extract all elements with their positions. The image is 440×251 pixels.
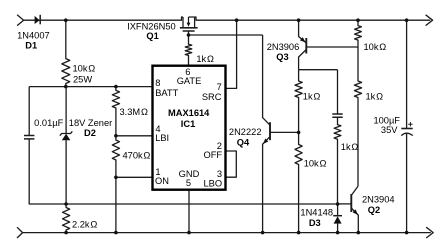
output arrow top-right (426, 15, 433, 26)
transistor Q4 emitter (263, 137, 270, 233)
svg-text:5: 5 (186, 178, 191, 188)
zener D2 top lead (65, 87, 67, 134)
wire ON pin 1 (116, 176, 153, 178)
resistor 1k below capacitor (334, 118, 341, 205)
svg-text:OFF: OFF (204, 150, 223, 160)
input terminal bottom-left (17, 227, 23, 238)
zener D2 triangle (62, 134, 71, 141)
svg-text:2N3906: 2N3906 (267, 42, 300, 52)
diode D3 top lead (337, 204, 339, 215)
transistor Q4 emitter arrow (263, 139, 268, 145)
capacitor 100uF positive plate (401, 128, 412, 130)
svg-text:2N2222: 2N2222 (229, 127, 262, 137)
diode D3 bottom lead (337, 224, 339, 233)
resistor 470k (112, 136, 119, 178)
wire Q3 collector to capacitor branch (299, 69, 338, 71)
svg-text:SRC: SRC (202, 92, 222, 102)
svg-text:BATT: BATT (155, 88, 178, 98)
svg-text:10k Ω: 10k Ω (364, 42, 387, 52)
transistor Q4 base wire (270, 131, 299, 133)
svg-text:1k Ω: 1k Ω (366, 91, 384, 101)
svg-text:Q2: Q2 (368, 205, 380, 215)
wire bottom rail (23, 232, 431, 234)
svg-text:GATE: GATE (177, 76, 202, 86)
resistor 1k gate (185, 35, 192, 66)
svg-text:Q4: Q4 (237, 137, 250, 147)
transistor Q1 channel bar (180, 27, 198, 29)
transistor Q2 bar (350, 194, 352, 212)
svg-text:1N4007: 1N4007 (17, 30, 50, 40)
svg-text:Q1: Q1 (146, 31, 158, 41)
transistor Q1 gate lead (188, 31, 190, 35)
transistor Q1 gate bar (183, 30, 195, 32)
wire ON column to bottom rail (115, 177, 117, 232)
svg-text:35V: 35V (381, 125, 398, 135)
wire LBI pin 4 (116, 135, 153, 137)
capacitor 100uF plus sign (408, 122, 412, 126)
capacitor middle plates (332, 114, 342, 117)
transistor Q2 collector (351, 186, 358, 195)
zener D2 cathode bar (60, 131, 72, 135)
resistor 3.3M (112, 87, 119, 136)
capacitor 0.01uF bottom lead and zener ground line (29, 139, 337, 204)
svg-text:1k Ω: 1k Ω (341, 142, 359, 152)
input terminal top-left (17, 15, 24, 26)
transistor Q3 emitter arrow (300, 37, 306, 42)
transistor Q3 collector (299, 50, 307, 70)
svg-text:10k Ω: 10k Ω (304, 158, 327, 168)
svg-text:0.01µF: 0.01µF (34, 118, 63, 128)
svg-text:IXFN26N50: IXFN26N50 (127, 21, 176, 31)
diode D1 cathode bar (39, 15, 41, 24)
svg-text:3.3M Ω: 3.3M Ω (120, 107, 148, 117)
svg-text:LBO: LBO (203, 178, 222, 188)
svg-text:D2: D2 (84, 128, 96, 138)
capacitor 0.01uF plates (24, 136, 34, 139)
svg-text:2N3904: 2N3904 (362, 194, 395, 204)
transistor Q2 emitter (351, 208, 358, 233)
resistor 2.2k (63, 204, 70, 233)
svg-text:ON: ON (155, 176, 169, 186)
wire top rail from input to Q1 drain (24, 17, 183, 20)
transistor Q3 bar (305, 38, 307, 54)
transistor Q3 base wire (306, 46, 358, 48)
capacitor 100uF bottom lead (406, 134, 408, 233)
svg-text:3: 3 (217, 169, 222, 179)
svg-text:1N4148: 1N4148 (300, 208, 333, 218)
wire gate node to Q4 collector (189, 34, 263, 36)
wire GND pin 5 to bottom rail (188, 190, 190, 233)
diode D3 cathode bar (333, 215, 342, 217)
zener D2 bottom lead (65, 140, 67, 204)
transistor Q1 body arrow (187, 17, 191, 27)
resistor 1k right column (354, 47, 361, 186)
capacitor 100uF curved plate (401, 133, 412, 135)
svg-text:D1: D1 (25, 41, 37, 51)
capacitor middle top lead (337, 70, 339, 114)
wire top rail from Q1 source to output (195, 17, 431, 20)
svg-text:1k Ω: 1k Ω (196, 54, 214, 64)
resistor 10k 25W (62, 20, 70, 86)
capacitor 100uF top lead (406, 20, 408, 128)
svg-text:18V Zener: 18V Zener (69, 118, 112, 128)
diode D3 triangle (334, 216, 342, 223)
transistor Q2 emitter arrow (353, 209, 358, 215)
output arrow bottom-right (426, 227, 433, 238)
svg-text:2.2k Ω: 2.2k Ω (72, 219, 97, 229)
svg-text:1k Ω: 1k Ω (303, 91, 321, 101)
IC1 MAX1614 box (153, 66, 226, 190)
transistor Q4 collector (263, 35, 270, 125)
resistor 10k Q4 base (295, 132, 302, 232)
svg-text:LBI: LBI (155, 133, 169, 143)
svg-text:8: 8 (155, 78, 160, 88)
svg-text:100µF: 100µF (373, 115, 400, 125)
svg-text:MAX1614: MAX1614 (168, 108, 210, 118)
svg-text:25W: 25W (73, 74, 92, 84)
svg-text:10k Ω: 10k Ω (73, 63, 96, 73)
transistor Q2 base wire (338, 203, 352, 205)
diode D1 triangle (35, 16, 40, 24)
svg-text:7: 7 (217, 82, 222, 92)
resistor 10k top right (355, 20, 362, 47)
svg-text:470k Ω: 470k Ω (123, 150, 151, 160)
svg-text:D3: D3 (309, 218, 321, 228)
wire OFF pin 2 to LBO pin 3 (226, 151, 237, 177)
resistor 1k Q3 collector (295, 70, 302, 133)
transistor Q4 bar (269, 122, 271, 140)
transistor Q3 emitter (299, 20, 307, 43)
wire SRC pin 7 riser (226, 20, 237, 88)
svg-text:Q3: Q3 (276, 52, 288, 62)
svg-text:IC1: IC1 (181, 119, 195, 129)
capacitor 0.01uF top lead (28, 87, 30, 136)
transistor Q1 contact stubs (183, 17, 195, 27)
wire BATT rail (29, 86, 152, 88)
